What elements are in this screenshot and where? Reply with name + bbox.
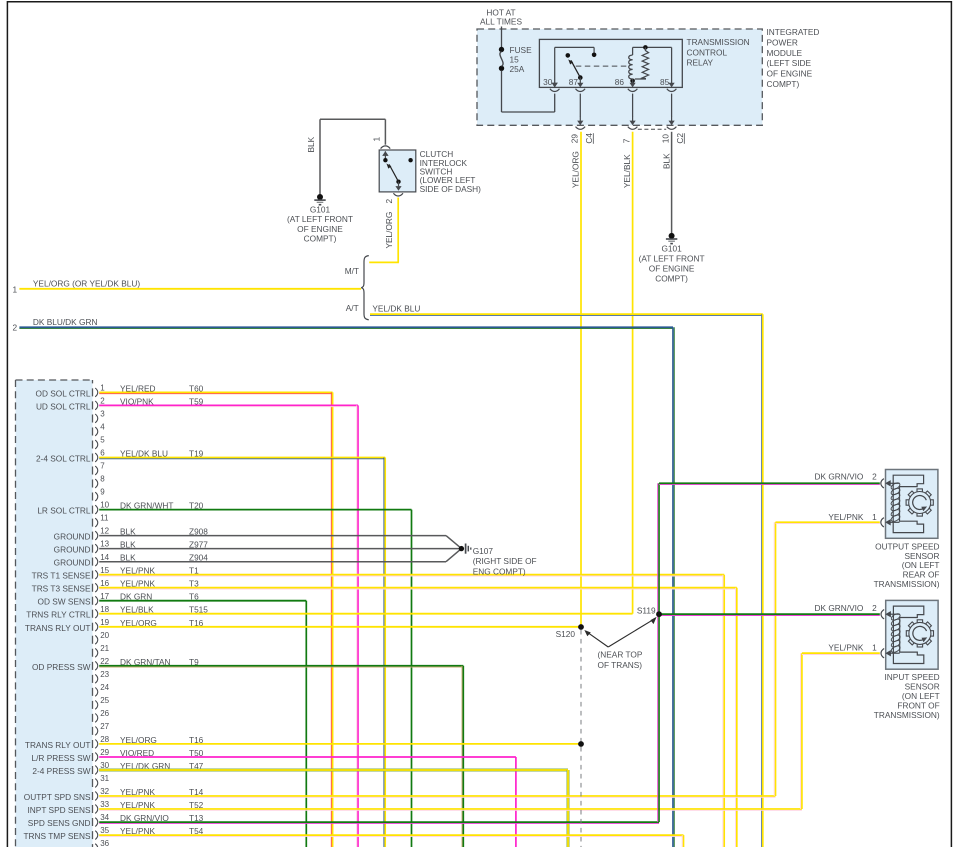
svg-text:S119: S119 <box>637 605 656 615</box>
svg-text:GROUND: GROUND <box>54 545 91 555</box>
svg-text:29: 29 <box>570 134 580 144</box>
svg-text:OUTPUT SPEED: OUTPUT SPEED <box>875 541 939 551</box>
svg-text:ENG COMPT): ENG COMPT) <box>473 566 526 576</box>
svg-text:10: 10 <box>100 501 109 510</box>
svg-text:YEL/ORG: YEL/ORG <box>571 151 581 188</box>
svg-text:OD SW SENS: OD SW SENS <box>37 597 90 607</box>
svg-text:CONTROL: CONTROL <box>687 47 728 57</box>
svg-text:INTEGRATED: INTEGRATED <box>767 27 820 37</box>
svg-text:33: 33 <box>100 800 109 809</box>
svg-text:26: 26 <box>100 709 109 718</box>
svg-text:REAR OF: REAR OF <box>903 570 940 580</box>
svg-text:2: 2 <box>100 397 105 406</box>
svg-text:86: 86 <box>615 77 625 87</box>
svg-text:8: 8 <box>100 475 105 484</box>
svg-text:OD SOL CTRL: OD SOL CTRL <box>35 388 90 398</box>
svg-text:25: 25 <box>100 696 109 705</box>
svg-text:7: 7 <box>621 138 631 143</box>
svg-text:OF TRANS): OF TRANS) <box>598 660 643 670</box>
svg-text:TRANSMISSION): TRANSMISSION) <box>874 579 940 589</box>
svg-text:GROUND: GROUND <box>54 532 91 542</box>
svg-text:YEL/BLK: YEL/BLK <box>622 154 632 188</box>
svg-text:4: 4 <box>100 423 105 432</box>
svg-text:S120: S120 <box>556 629 576 639</box>
svg-text:85: 85 <box>660 77 670 87</box>
svg-text:1: 1 <box>13 284 18 294</box>
svg-text:LR SOL CTRL: LR SOL CTRL <box>37 506 91 516</box>
svg-text:34: 34 <box>100 813 109 822</box>
svg-text:G107: G107 <box>473 546 494 556</box>
svg-text:GROUND: GROUND <box>54 558 91 568</box>
svg-text:2: 2 <box>13 323 18 333</box>
svg-text:27: 27 <box>100 722 109 731</box>
svg-text:16: 16 <box>100 579 109 588</box>
svg-text:M/T: M/T <box>345 266 359 276</box>
svg-text:OF ENGINE: OF ENGINE <box>649 264 695 274</box>
svg-text:TRNS TMP SENS: TRNS TMP SENS <box>23 831 90 841</box>
svg-text:(RIGHT SIDE OF: (RIGHT SIDE OF <box>473 556 537 566</box>
svg-text:31: 31 <box>100 774 109 783</box>
svg-text:28: 28 <box>100 735 109 744</box>
svg-text:2-4 PRESS SW: 2-4 PRESS SW <box>32 766 90 776</box>
svg-text:C2: C2 <box>675 133 685 144</box>
svg-text:(AT LEFT FRONT: (AT LEFT FRONT <box>639 254 705 264</box>
svg-text:2: 2 <box>872 603 877 613</box>
svg-text:12: 12 <box>100 527 109 536</box>
svg-text:1: 1 <box>100 384 105 393</box>
svg-text:6: 6 <box>100 449 105 458</box>
svg-text:35: 35 <box>100 826 109 835</box>
svg-text:1: 1 <box>872 642 877 652</box>
svg-text:COMPT): COMPT) <box>767 79 800 89</box>
svg-text:14: 14 <box>100 553 109 562</box>
svg-text:POWER: POWER <box>767 38 798 48</box>
svg-text:ALL TIMES: ALL TIMES <box>480 17 522 27</box>
svg-text:SENSOR: SENSOR <box>905 682 940 692</box>
svg-text:2: 2 <box>872 472 877 482</box>
svg-text:2: 2 <box>384 199 394 204</box>
svg-text:TRANSMISSION: TRANSMISSION <box>687 37 750 47</box>
svg-text:G101: G101 <box>310 205 331 215</box>
svg-text:9: 9 <box>100 488 105 497</box>
svg-text:INPT SPD SENS: INPT SPD SENS <box>27 805 90 815</box>
svg-text:YEL/PNK: YEL/PNK <box>828 512 864 522</box>
svg-text:20: 20 <box>100 631 109 640</box>
svg-text:36: 36 <box>100 839 109 847</box>
svg-text:5: 5 <box>100 436 105 445</box>
svg-text:13: 13 <box>100 540 109 549</box>
svg-text:1: 1 <box>371 137 381 142</box>
svg-text:(NEAR TOP: (NEAR TOP <box>598 650 643 660</box>
svg-text:BLK: BLK <box>662 153 672 169</box>
svg-text:21: 21 <box>100 644 109 653</box>
svg-text:COMPT): COMPT) <box>655 273 688 283</box>
svg-text:18: 18 <box>100 605 109 614</box>
svg-text:UD SOL CTRL: UD SOL CTRL <box>36 401 91 411</box>
svg-text:TRNS RLY CTRL: TRNS RLY CTRL <box>26 610 91 620</box>
svg-text:L/R PRESS SW: L/R PRESS SW <box>31 753 90 763</box>
svg-text:30: 30 <box>543 77 553 87</box>
svg-text:87: 87 <box>569 77 579 87</box>
svg-text:MODULE: MODULE <box>767 48 803 58</box>
svg-text:TRANS RLY OUT: TRANS RLY OUT <box>25 740 91 750</box>
svg-text:17: 17 <box>100 592 109 601</box>
svg-text:OD PRESS SW: OD PRESS SW <box>32 662 91 672</box>
svg-text:DK BLU/DK GRN: DK BLU/DK GRN <box>33 317 98 327</box>
svg-text:DK GRN/VIO: DK GRN/VIO <box>815 603 864 613</box>
svg-text:2-4 SOL CTRL: 2-4 SOL CTRL <box>36 454 91 464</box>
svg-text:YEL/ORG (OR YEL/DK BLU): YEL/ORG (OR YEL/DK BLU) <box>33 279 141 289</box>
svg-text:FRONT OF: FRONT OF <box>897 701 939 711</box>
svg-text:32: 32 <box>100 787 109 796</box>
svg-text:(AT LEFT FRONT: (AT LEFT FRONT <box>287 214 353 224</box>
svg-text:YEL/DK BLU: YEL/DK BLU <box>372 303 420 313</box>
svg-text:23: 23 <box>100 670 109 679</box>
svg-text:22: 22 <box>100 657 109 666</box>
svg-text:A/T: A/T <box>346 303 359 313</box>
svg-text:FUSE: FUSE <box>510 45 533 55</box>
svg-text:10: 10 <box>661 134 671 144</box>
svg-text:DK GRN/VIO: DK GRN/VIO <box>815 472 864 482</box>
svg-text:15: 15 <box>510 55 520 65</box>
svg-text:SIDE OF DASH): SIDE OF DASH) <box>420 184 482 194</box>
svg-text:TRANS RLY OUT: TRANS RLY OUT <box>25 623 91 633</box>
svg-text:OF ENGINE: OF ENGINE <box>767 69 813 79</box>
svg-text:3: 3 <box>100 410 105 419</box>
svg-text:TRS T3 SENSE: TRS T3 SENSE <box>32 584 91 594</box>
svg-text:COMPT): COMPT) <box>304 234 337 244</box>
svg-text:29: 29 <box>100 748 109 757</box>
svg-text:25A: 25A <box>510 64 525 74</box>
svg-text:YEL/PNK: YEL/PNK <box>828 642 864 652</box>
svg-text:C4: C4 <box>584 133 594 144</box>
svg-text:19: 19 <box>100 618 109 627</box>
svg-text:(LEFT SIDE: (LEFT SIDE <box>767 58 812 68</box>
svg-text:SPD SENS GND: SPD SENS GND <box>28 818 91 828</box>
svg-text:RELAY: RELAY <box>687 58 714 68</box>
svg-text:YEL/ORG: YEL/ORG <box>384 212 394 249</box>
svg-text:OUTPT SPD SNS: OUTPT SPD SNS <box>24 792 91 802</box>
svg-text:7: 7 <box>100 462 105 471</box>
svg-text:BLK: BLK <box>306 136 316 152</box>
svg-text:OF ENGINE: OF ENGINE <box>297 224 343 234</box>
svg-text:TRS T1 SENSE: TRS T1 SENSE <box>32 571 91 581</box>
svg-text:24: 24 <box>100 683 109 692</box>
svg-text:1: 1 <box>872 512 877 522</box>
svg-text:TRANSMISSION): TRANSMISSION) <box>874 710 940 720</box>
svg-text:15: 15 <box>100 566 109 575</box>
svg-text:G101: G101 <box>661 244 682 254</box>
svg-text:11: 11 <box>100 514 109 523</box>
